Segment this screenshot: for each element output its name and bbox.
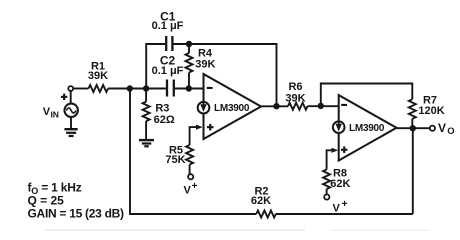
svg-text:39K: 39K xyxy=(195,59,215,71)
svg-text:62Ω: 62Ω xyxy=(154,114,175,126)
svg-text:120K: 120K xyxy=(418,105,444,117)
svg-text:LM3900: LM3900 xyxy=(214,103,250,114)
svg-text:R6: R6 xyxy=(288,81,302,93)
svg-text:39K: 39K xyxy=(88,70,108,82)
svg-text:0.1 μF: 0.1 μF xyxy=(152,65,184,77)
svg-text:62K: 62K xyxy=(330,178,350,190)
svg-text:62K: 62K xyxy=(251,195,271,207)
svg-text:LM3900: LM3900 xyxy=(349,123,385,134)
svg-text:GAIN = 15 (23 dB): GAIN = 15 (23 dB) xyxy=(28,207,125,221)
svg-text:Q = 25: Q = 25 xyxy=(28,194,65,208)
svg-text:39K: 39K xyxy=(285,93,305,105)
svg-text:0.1 μF: 0.1 μF xyxy=(152,20,184,32)
svg-text:R3: R3 xyxy=(155,103,169,115)
svg-text:75K: 75K xyxy=(165,154,185,166)
